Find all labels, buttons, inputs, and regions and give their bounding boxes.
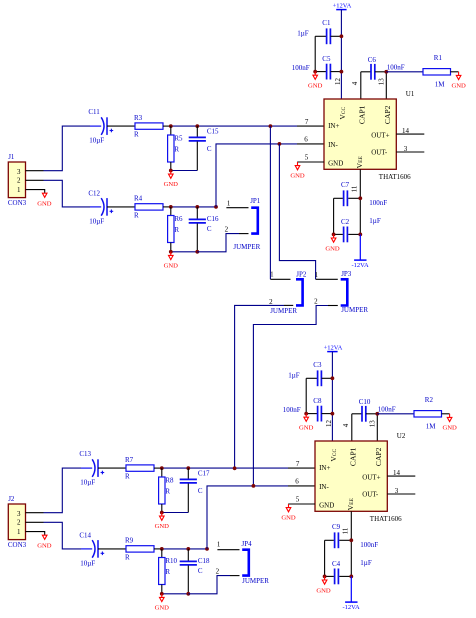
svg-text:GND: GND bbox=[442, 425, 457, 432]
capacitor C16 value C bbox=[189, 207, 219, 252]
wire decoupling rail bbox=[314, 36, 316, 71]
svg-text:GND: GND bbox=[316, 588, 331, 595]
wire JP3 pin1 bbox=[316, 278, 338, 280]
svg-text:1: 1 bbox=[17, 186, 21, 194]
svg-text:C18: C18 bbox=[198, 557, 210, 565]
svg-text:C3: C3 bbox=[313, 361, 322, 369]
svg-text:1: 1 bbox=[17, 528, 21, 536]
svg-text:J2: J2 bbox=[8, 495, 15, 503]
power +12VA bbox=[333, 2, 352, 99]
svg-text:C2: C2 bbox=[341, 218, 350, 226]
svg-text:JUMPER: JUMPER bbox=[270, 307, 297, 315]
connector J1 CON3 bbox=[8, 153, 27, 207]
wire OUT+ pin stub bbox=[396, 133, 424, 135]
junction caps left rail gnd bbox=[332, 233, 336, 237]
junction lower IN+ row bbox=[233, 466, 237, 470]
svg-text:2: 2 bbox=[225, 225, 229, 233]
svg-text:IN-: IN- bbox=[319, 483, 329, 491]
capacitor C6 100nF bbox=[361, 56, 405, 80]
svg-text:JP2: JP2 bbox=[296, 271, 307, 279]
svg-text:100nF: 100nF bbox=[283, 406, 301, 414]
resistor R4 value R bbox=[134, 195, 171, 220]
junction row1/Cva bbox=[195, 124, 199, 128]
junction row1/Cva bbox=[186, 466, 190, 470]
wire J pin3 stub bbox=[26, 170, 44, 172]
svg-text:5: 5 bbox=[305, 153, 309, 161]
capacitor C7 100nF bbox=[334, 181, 388, 207]
svg-text:10µF: 10µF bbox=[89, 218, 104, 226]
wire caps left rail bbox=[333, 198, 335, 234]
svg-text:C4: C4 bbox=[332, 560, 341, 568]
junction Rva bottom bbox=[169, 169, 173, 173]
svg-text:R2: R2 bbox=[425, 396, 434, 404]
op-amp IC U2 THAT1606 bbox=[315, 432, 406, 523]
svg-text:1M: 1M bbox=[426, 423, 437, 431]
ground decoupling caps bbox=[299, 414, 314, 432]
capacitor C2 1uF bbox=[334, 217, 381, 242]
junction C8/+12VA bbox=[331, 412, 335, 416]
wire J pin2 stub bbox=[26, 179, 44, 181]
svg-text:11: 11 bbox=[342, 527, 350, 534]
capacitor C14 10uF bbox=[79, 531, 126, 567]
ground below R6 bbox=[164, 252, 179, 270]
wire IC GND pin stub bbox=[288, 503, 315, 505]
svg-text:3: 3 bbox=[17, 510, 21, 518]
svg-text:1: 1 bbox=[270, 270, 274, 278]
ground below R5 bbox=[164, 171, 179, 189]
ground below R8 bbox=[155, 513, 170, 531]
svg-text:100nF: 100nF bbox=[387, 64, 405, 72]
wire IC GND pin stub bbox=[297, 161, 324, 163]
capacitor C10 100nF bbox=[352, 398, 396, 422]
svg-text:R: R bbox=[165, 568, 170, 576]
junction row2/Rb bbox=[169, 205, 173, 209]
svg-text:13: 13 bbox=[369, 420, 377, 428]
wire row1 ground return bbox=[162, 512, 189, 514]
svg-text:100nF: 100nF bbox=[292, 64, 310, 72]
capacitor C8 100nF bbox=[283, 397, 333, 422]
svg-text:C12: C12 bbox=[88, 189, 100, 197]
svg-text:6: 6 bbox=[295, 478, 299, 486]
wire row1 ground return bbox=[171, 170, 198, 172]
junction lower IN- row bbox=[252, 484, 256, 488]
wire OUT- pin stub bbox=[396, 151, 424, 153]
svg-text:R1: R1 bbox=[434, 54, 443, 62]
svg-text:THAT1606: THAT1606 bbox=[379, 173, 411, 181]
wire decoupling rail bbox=[305, 378, 307, 413]
wire JP4 pin2 to ground rail bbox=[188, 576, 239, 594]
capacitor C15 value C bbox=[189, 126, 219, 170]
wire row2 junction run bbox=[171, 206, 216, 208]
svg-text:JUMPER: JUMPER bbox=[341, 306, 368, 314]
svg-text:2: 2 bbox=[17, 176, 21, 184]
svg-text:2: 2 bbox=[17, 518, 21, 526]
ground VEE caps bbox=[325, 234, 340, 252]
svg-text:C: C bbox=[207, 225, 212, 233]
wire riser to IC IN- bbox=[207, 486, 315, 549]
ground IC GND pin bbox=[281, 504, 296, 522]
wire OUT+ pin stub bbox=[387, 475, 415, 477]
svg-text:-12VA: -12VA bbox=[351, 262, 369, 269]
svg-text:2: 2 bbox=[314, 297, 318, 305]
svg-text:R4: R4 bbox=[134, 195, 143, 203]
svg-text:GND: GND bbox=[308, 82, 323, 89]
junction row2/Cvb bbox=[195, 205, 199, 209]
junction C3/+12VA bbox=[331, 376, 335, 380]
svg-text:J1: J1 bbox=[8, 153, 15, 161]
ground VEE caps bbox=[316, 576, 331, 594]
wire VEE pin line bbox=[359, 169, 361, 234]
jumper JP4 bbox=[216, 540, 270, 585]
svg-text:7: 7 bbox=[305, 118, 309, 126]
svg-text:C13: C13 bbox=[79, 450, 91, 458]
svg-text:6: 6 bbox=[304, 136, 308, 144]
junction row2/Cvb bbox=[186, 547, 190, 551]
junction C5/+12VA bbox=[340, 70, 344, 74]
wire riser to IC IN- bbox=[216, 144, 324, 207]
svg-text:R: R bbox=[174, 226, 179, 234]
svg-text:10µF: 10µF bbox=[80, 560, 95, 568]
power -12VA bbox=[351, 234, 369, 269]
svg-text:U2: U2 bbox=[397, 432, 406, 440]
wire J pin3 to input row bbox=[44, 126, 91, 171]
op-amp IC U1 THAT1606 bbox=[324, 90, 415, 181]
svg-text:CAP1: CAP1 bbox=[358, 105, 367, 124]
svg-text:THAT1606: THAT1606 bbox=[370, 515, 402, 523]
ground R2 bbox=[442, 414, 457, 432]
svg-text:IN+: IN+ bbox=[328, 122, 339, 130]
svg-text:R3: R3 bbox=[134, 114, 143, 122]
svg-text:GND: GND bbox=[37, 542, 52, 549]
svg-text:CON3: CON3 bbox=[8, 199, 27, 207]
power +12VA bbox=[324, 344, 343, 441]
svg-text:R7: R7 bbox=[125, 456, 134, 464]
capacitor C12 10uF bbox=[88, 189, 135, 225]
wire row2 junction run bbox=[162, 548, 207, 550]
svg-text:C9: C9 bbox=[332, 523, 341, 531]
ground below R10 bbox=[155, 594, 170, 612]
svg-text:R: R bbox=[125, 553, 130, 561]
svg-text:2: 2 bbox=[216, 567, 220, 575]
svg-text:U1: U1 bbox=[406, 90, 415, 98]
svg-text:+12VA: +12VA bbox=[333, 2, 352, 9]
wire JP2 pin1 bbox=[270, 278, 290, 280]
wire J pin2 to lower row bbox=[44, 522, 82, 549]
resistor R5 value R bbox=[168, 126, 183, 170]
svg-text:R: R bbox=[134, 211, 139, 219]
svg-text:C: C bbox=[198, 567, 203, 575]
resistor R2 1M bbox=[377, 396, 449, 431]
svg-text:GND: GND bbox=[319, 502, 334, 510]
svg-text:1: 1 bbox=[314, 271, 318, 279]
svg-text:JUMPER: JUMPER bbox=[242, 577, 269, 585]
svg-text:-12VA: -12VA bbox=[342, 604, 360, 611]
resistor R9 value R bbox=[125, 537, 162, 562]
svg-text:1µF: 1µF bbox=[360, 559, 372, 567]
junction Cvb bottom bbox=[195, 250, 199, 254]
svg-text:R: R bbox=[174, 145, 179, 153]
svg-text:GND: GND bbox=[164, 181, 179, 188]
wire row1 to IC IN+ bbox=[162, 467, 315, 469]
capacitor C11 10uF bbox=[88, 108, 135, 145]
junction C10/CAP2 bbox=[375, 412, 379, 416]
svg-text:C16: C16 bbox=[207, 215, 219, 223]
svg-text:10µF: 10µF bbox=[80, 479, 95, 487]
svg-text:C17: C17 bbox=[198, 470, 210, 478]
wire J pin1 stub bbox=[26, 190, 45, 194]
svg-text:13: 13 bbox=[378, 78, 386, 86]
wire J pin2 to lower row bbox=[44, 180, 91, 207]
svg-text:C1: C1 bbox=[322, 19, 331, 27]
wire JP1 pin1 bbox=[226, 207, 248, 209]
svg-text:R6: R6 bbox=[174, 215, 183, 223]
svg-text:11: 11 bbox=[351, 185, 359, 192]
svg-text:1µF: 1µF bbox=[288, 372, 300, 380]
junction C4/VEE bbox=[349, 575, 353, 579]
junction decoupling rail gnd bbox=[304, 412, 308, 416]
svg-text:JP4: JP4 bbox=[242, 540, 253, 548]
wire VEE pin line bbox=[350, 511, 352, 576]
wire JP4 pin1 bbox=[217, 549, 239, 551]
junction C1/+12VA bbox=[340, 34, 344, 38]
svg-text:GND: GND bbox=[155, 523, 170, 530]
svg-text:C15: C15 bbox=[207, 128, 219, 136]
wire J pin2 stub bbox=[26, 521, 44, 523]
svg-text:GND: GND bbox=[451, 83, 466, 90]
junction Rvb bottom bbox=[160, 592, 164, 596]
junction row2/IN- riser bbox=[205, 547, 209, 551]
svg-text:C14: C14 bbox=[79, 531, 91, 539]
svg-text:C: C bbox=[198, 487, 203, 495]
wire IN+ bus to JP2 pin1 bbox=[269, 126, 271, 279]
wire CAP1 pin line bbox=[351, 414, 353, 441]
svg-text:JP1: JP1 bbox=[250, 197, 261, 205]
capacitor C1 1uF bbox=[297, 19, 341, 44]
svg-text:C: C bbox=[207, 145, 212, 153]
junction C2/VEE bbox=[358, 233, 362, 237]
wire row1 to IC IN+ bbox=[171, 125, 324, 127]
svg-text:12: 12 bbox=[325, 420, 333, 428]
svg-text:R9: R9 bbox=[125, 537, 134, 545]
svg-text:1: 1 bbox=[217, 540, 221, 548]
capacitor C3 1uF bbox=[288, 361, 332, 386]
svg-text:OUT+: OUT+ bbox=[362, 474, 380, 482]
wire row2 ground return bbox=[171, 251, 198, 253]
wire CAP2 pin line bbox=[385, 72, 387, 99]
wire JP3 pin2 bus to lower IN- bbox=[253, 306, 337, 486]
connector J2 CON3 bbox=[8, 495, 27, 549]
svg-text:GND: GND bbox=[155, 605, 170, 612]
svg-text:C11: C11 bbox=[88, 108, 100, 116]
junction row2/Rb bbox=[160, 547, 164, 551]
jumper JP3 bbox=[314, 270, 368, 314]
svg-text:GND: GND bbox=[281, 515, 296, 522]
ground J pin1 bbox=[37, 193, 52, 207]
junction IN- row / JP3 bus bbox=[278, 142, 282, 146]
junction Rvb bottom bbox=[169, 250, 173, 254]
resistor R10 value R bbox=[159, 549, 178, 594]
svg-text:OUT-: OUT- bbox=[371, 149, 388, 157]
svg-text:IN-: IN- bbox=[328, 141, 338, 149]
resistor R8 value R bbox=[159, 468, 174, 512]
jumper JP2 bbox=[269, 270, 307, 315]
svg-text:C7: C7 bbox=[341, 181, 350, 189]
resistor R6 value R bbox=[168, 207, 183, 252]
junction IN+ row / JP2 bus bbox=[269, 124, 273, 128]
svg-text:GND: GND bbox=[290, 173, 305, 180]
wire J pin3 stub bbox=[26, 512, 44, 514]
junction caps left rail gnd bbox=[323, 575, 327, 579]
svg-text:4: 4 bbox=[351, 81, 359, 85]
svg-text:C6: C6 bbox=[368, 56, 377, 64]
svg-text:4: 4 bbox=[342, 423, 350, 427]
capacitor C5 100nF bbox=[292, 55, 342, 80]
svg-text:OUT-: OUT- bbox=[362, 491, 379, 499]
wire J pin3 to input row bbox=[44, 468, 82, 513]
ground IC GND pin bbox=[290, 162, 305, 180]
ground decoupling caps bbox=[308, 72, 323, 90]
svg-text:1µF: 1µF bbox=[369, 217, 381, 225]
svg-text:R: R bbox=[125, 473, 130, 481]
svg-text:GND: GND bbox=[328, 160, 343, 168]
wire JP2 pin2 bus to lower IN+ bbox=[235, 305, 294, 468]
svg-text:C10: C10 bbox=[359, 398, 371, 406]
resistor R3 value R bbox=[134, 114, 171, 139]
junction decoupling rail gnd bbox=[313, 70, 317, 74]
resistor R1 1M bbox=[386, 54, 458, 89]
power -12VA bbox=[342, 576, 360, 611]
svg-text:GND: GND bbox=[164, 263, 179, 270]
svg-text:GND: GND bbox=[325, 246, 340, 253]
junction C9/VEE bbox=[349, 538, 353, 542]
svg-text:CAP2: CAP2 bbox=[374, 447, 383, 466]
svg-text:100nF: 100nF bbox=[369, 199, 387, 207]
svg-text:R: R bbox=[134, 131, 139, 139]
svg-text:1: 1 bbox=[227, 199, 231, 207]
junction Rva bottom bbox=[160, 511, 164, 515]
capacitor C9 100nF bbox=[325, 523, 379, 549]
svg-text:GND: GND bbox=[37, 200, 52, 207]
junction row1/Ra bbox=[169, 124, 173, 128]
svg-text:CON3: CON3 bbox=[8, 541, 27, 549]
svg-text:10µF: 10µF bbox=[89, 137, 104, 145]
wire CAP1 pin line bbox=[360, 72, 362, 99]
ground R1 bbox=[451, 72, 466, 90]
svg-text:R8: R8 bbox=[165, 476, 174, 484]
svg-text:C8: C8 bbox=[313, 397, 322, 405]
capacitor C18 value C bbox=[180, 549, 210, 594]
wire CAP2 pin line bbox=[376, 414, 378, 441]
svg-text:+12VA: +12VA bbox=[324, 344, 343, 351]
wire row2 ground return bbox=[162, 593, 189, 595]
junction C6/CAP2 bbox=[384, 70, 388, 74]
svg-text:OUT+: OUT+ bbox=[371, 132, 389, 140]
svg-text:1µF: 1µF bbox=[297, 30, 309, 38]
svg-text:IN+: IN+ bbox=[319, 464, 330, 472]
wire IN- bus to JP3 pin1 bbox=[279, 144, 315, 279]
wire J pin1 stub bbox=[26, 532, 45, 536]
svg-text:CAP1: CAP1 bbox=[349, 447, 358, 466]
junction row1/Ra bbox=[160, 466, 164, 470]
svg-text:2: 2 bbox=[269, 298, 273, 306]
svg-text:R10: R10 bbox=[165, 557, 177, 565]
wire OUT- pin stub bbox=[387, 493, 415, 495]
wire JP1 pin2 to ground rail bbox=[197, 234, 248, 252]
svg-text:C5: C5 bbox=[322, 55, 331, 63]
svg-text:CAP2: CAP2 bbox=[383, 105, 392, 124]
svg-text:100nF: 100nF bbox=[360, 541, 378, 549]
svg-text:5: 5 bbox=[296, 495, 300, 503]
junction row2/IN- riser bbox=[214, 205, 218, 209]
capacitor C13 10uF bbox=[79, 450, 126, 487]
wire caps left rail bbox=[324, 540, 326, 576]
svg-text:JUMPER: JUMPER bbox=[233, 243, 260, 251]
svg-text:GND: GND bbox=[299, 424, 314, 431]
capacitor C4 1uF bbox=[325, 559, 372, 584]
resistor R7 value R bbox=[125, 456, 162, 481]
capacitor C17 value C bbox=[180, 468, 210, 512]
svg-text:1M: 1M bbox=[435, 81, 446, 89]
svg-text:3: 3 bbox=[17, 168, 21, 176]
svg-text:R: R bbox=[165, 487, 170, 495]
jumper JP1 bbox=[225, 197, 261, 251]
svg-text:12: 12 bbox=[334, 78, 342, 86]
ground J pin1 bbox=[37, 535, 52, 549]
svg-text:JP3: JP3 bbox=[341, 270, 352, 278]
svg-text:R5: R5 bbox=[174, 134, 183, 142]
junction Cvb bottom bbox=[186, 592, 190, 596]
svg-text:100nF: 100nF bbox=[378, 406, 396, 414]
junction C7/VEE bbox=[358, 196, 362, 200]
svg-text:7: 7 bbox=[296, 460, 300, 468]
